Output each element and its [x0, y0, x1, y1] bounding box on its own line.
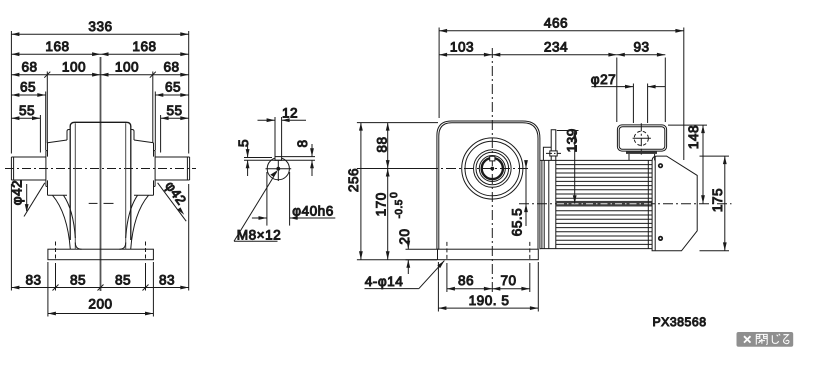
svg-text:85: 85 — [70, 272, 86, 287]
motor end bracket — [652, 156, 697, 251]
bell outer curve — [53, 195, 71, 249]
phi42 leader right — [158, 183, 187, 221]
svg-text:20: 20 — [397, 228, 412, 244]
output bearing circle 3 — [474, 150, 512, 188]
motor frame bottom edge — [540, 248, 652, 250]
keyway slot bottom line — [244, 159, 315, 161]
end bracket inner lip — [654, 156, 656, 250]
end bracket bolt top — [658, 163, 663, 168]
4-phi14 underline — [365, 288, 419, 290]
extension 20 — [406, 248, 439, 250]
svg-text:φ40h6: φ40h6 — [292, 204, 334, 219]
dimension 93 — [617, 54, 666, 56]
keyway width extension lines — [274, 117, 276, 157]
svg-text:85: 85 — [115, 272, 131, 287]
motor frame seam dark band — [556, 201, 652, 207]
svg-text:100: 100 — [62, 60, 86, 75]
svg-text:466: 466 — [544, 16, 568, 31]
svg-text:68: 68 — [21, 60, 37, 75]
kanji hei (close) simplified strokes — [756, 334, 789, 345]
svg-text:55: 55 — [166, 103, 182, 118]
bell inner curve — [64, 195, 76, 238]
dimension 234 — [492, 54, 617, 56]
motor front bracket verticals — [541, 160, 543, 248]
extension 139 — [557, 130, 579, 132]
dimension phi40h6 — [252, 217, 267, 219]
left extension lines right view — [357, 122, 438, 124]
dimension 55 left — [11, 117, 40, 119]
dimension 5 — [247, 144, 249, 158]
key top extension right — [282, 156, 315, 158]
dimension 85 right — [101, 287, 146, 289]
dimension 88 — [387, 123, 389, 169]
M8x12 leader — [234, 172, 277, 242]
svg-text:168: 168 — [45, 39, 69, 54]
svg-text:12: 12 — [282, 106, 298, 121]
svg-text:65: 65 — [165, 80, 181, 95]
dimension 100 left — [47, 74, 100, 76]
svg-text:234: 234 — [544, 39, 568, 54]
dimension 139 — [574, 131, 576, 204]
svg-text:55: 55 — [19, 103, 35, 118]
shaft — [11, 156, 46, 158]
leg to base fillet — [75, 243, 81, 250]
dimension 68 left — [11, 74, 47, 76]
dimension 103 — [439, 54, 492, 56]
front view: base plate — [48, 249, 153, 260]
adapter step block — [543, 147, 551, 160]
dimension 20 — [407, 238, 409, 250]
svg-text:-0.5: -0.5 — [394, 199, 405, 218]
shaft center dot — [276, 167, 280, 171]
output center dot — [490, 167, 494, 171]
dimension 83 right — [146, 287, 189, 289]
front view: small center cross dashes — [89, 202, 98, 204]
plate bottom — [48, 194, 68, 196]
output boss circle 1 — [462, 138, 523, 199]
svg-text:φ42: φ42 — [162, 178, 189, 207]
output shaft bore thick circle — [482, 158, 503, 179]
front view: housing top cap — [70, 122, 131, 126]
extension lines 148 175 — [668, 124, 707, 126]
dimension 65.5 — [525, 163, 527, 227]
dimension 8 — [311, 144, 313, 157]
front view: left bolt hole hidden line — [55, 242, 57, 261]
svg-text:65: 65 — [20, 80, 36, 95]
foot bolt hole hidden line right — [529, 242, 531, 261]
dimension 65 right — [155, 94, 188, 96]
dimension 86 — [447, 288, 492, 290]
svg-text:M8×12: M8×12 — [237, 228, 281, 243]
plate step — [67, 130, 70, 141]
housing outer wall — [69, 126, 71, 240]
bearing plate face — [47, 143, 49, 157]
svg-text:PX38568: PX38568 — [652, 315, 706, 329]
fins right end vertical — [647, 160, 649, 248]
front view: vertical axis centerline — [100, 57, 102, 291]
dimension 466 — [439, 30, 684, 32]
gearbox foot — [438, 249, 539, 260]
svg-text:175: 175 — [710, 188, 725, 212]
dimension 190.5 — [438, 307, 538, 309]
adapter upright plate — [551, 130, 556, 161]
svg-text:256: 256 — [346, 168, 361, 192]
dimension 85 left — [56, 287, 101, 289]
dimension 83 left — [11, 287, 55, 289]
svg-text:70: 70 — [500, 273, 516, 288]
svg-text:83: 83 — [159, 272, 175, 287]
gearbox outer outline — [437, 121, 540, 249]
dimension 168 left — [11, 53, 100, 55]
front view: left+right mirrored body — [11, 123, 81, 249]
svg-text:4-φ14: 4-φ14 — [365, 274, 404, 289]
svg-text:83: 83 — [25, 272, 41, 287]
terminal box neck left — [628, 154, 630, 161]
phi27 hole dashed circle — [634, 131, 648, 145]
dimension 168 right — [101, 53, 189, 55]
gearbox inner outline — [439, 123, 538, 249]
output shaft circle 5 — [479, 156, 505, 182]
svg-text:5: 5 — [236, 139, 251, 147]
dimension 256 — [360, 123, 362, 260]
svg-text:100: 100 — [115, 60, 139, 75]
dimension 12 — [258, 119, 276, 121]
bottom extensions right view — [446, 263, 448, 292]
phi40h6 extension lines — [266, 172, 268, 226]
svg-text:190. 5: 190. 5 — [469, 293, 510, 308]
end bracket bolt bottom — [658, 236, 663, 241]
motor frame top edge — [540, 159, 652, 161]
bottom extension lines left view — [10, 184, 12, 291]
front view: right bolt hole hidden line — [145, 242, 147, 261]
dimension 175 — [724, 156, 726, 251]
svg-text:168: 168 — [132, 39, 156, 54]
circle top extension left — [244, 157, 272, 159]
svg-text:336: 336 — [88, 19, 112, 34]
svg-text:0: 0 — [389, 192, 400, 198]
extension lines top left view — [10, 31, 12, 154]
dimension 65 left — [11, 94, 45, 96]
svg-text:φ27: φ27 — [591, 72, 616, 87]
dimension 170 — [387, 169, 389, 260]
svg-text:65.5: 65.5 — [510, 208, 525, 236]
dimension 70 — [492, 288, 530, 290]
front view: horizontal shaft centerline — [5, 168, 196, 170]
svg-text:200: 200 — [88, 297, 112, 312]
side view: motor axis centerline — [519, 203, 732, 205]
dimension 336 — [11, 33, 188, 35]
motor fins — [556, 164, 652, 166]
keyway key rectangle — [275, 157, 282, 161]
close button — [737, 332, 794, 347]
dimension 55 right — [161, 117, 189, 119]
svg-text:88: 88 — [375, 136, 390, 152]
svg-text:139: 139 — [565, 128, 580, 152]
svg-text:68: 68 — [163, 60, 179, 75]
svg-text:93: 93 — [633, 39, 649, 54]
shaft end circle — [267, 158, 289, 180]
svg-text:170: 170 — [373, 192, 388, 216]
dimension 200 — [48, 313, 153, 315]
svg-text:86: 86 — [458, 273, 474, 288]
white centerline dashes on band — [557, 203, 651, 205]
terminal box outer — [617, 125, 666, 151]
adapter plug bolt — [550, 151, 557, 156]
output bearing circle 4 — [476, 152, 509, 185]
output keyway square — [490, 156, 495, 161]
dimension 68 right — [153, 74, 189, 76]
dimension 100 right — [101, 74, 153, 76]
svg-text:8: 8 — [295, 139, 310, 147]
adapter plug centerline — [546, 152, 561, 154]
4-phi14 leader — [419, 261, 445, 289]
side view: output axis horizontal centerline — [428, 168, 531, 170]
phi27 crosshair horizontal — [633, 137, 651, 139]
housing inner wall — [74, 123, 76, 249]
shaft end crosshair vertical — [277, 157, 279, 181]
shaft boss — [45, 151, 47, 187]
phi42 leader left — [26, 184, 28, 211]
svg-text:148: 148 — [686, 125, 701, 149]
terminal box inner — [619, 127, 665, 150]
terminal box neck right — [654, 154, 656, 161]
extension lines top right view — [438, 28, 440, 119]
plate top slant — [48, 140, 68, 143]
output boss circle 2 — [465, 141, 520, 196]
phi27 crosshair vertical — [640, 123, 642, 154]
shaft end crosshair horizontal — [266, 168, 292, 170]
terminal box gasket — [626, 151, 657, 154]
side view: output axis vertical centerline — [491, 48, 493, 292]
dimension 148 — [702, 125, 704, 204]
svg-text:103: 103 — [450, 39, 474, 54]
dimension phi27 — [591, 86, 633, 88]
foot bolt hole hidden line left — [446, 242, 448, 261]
